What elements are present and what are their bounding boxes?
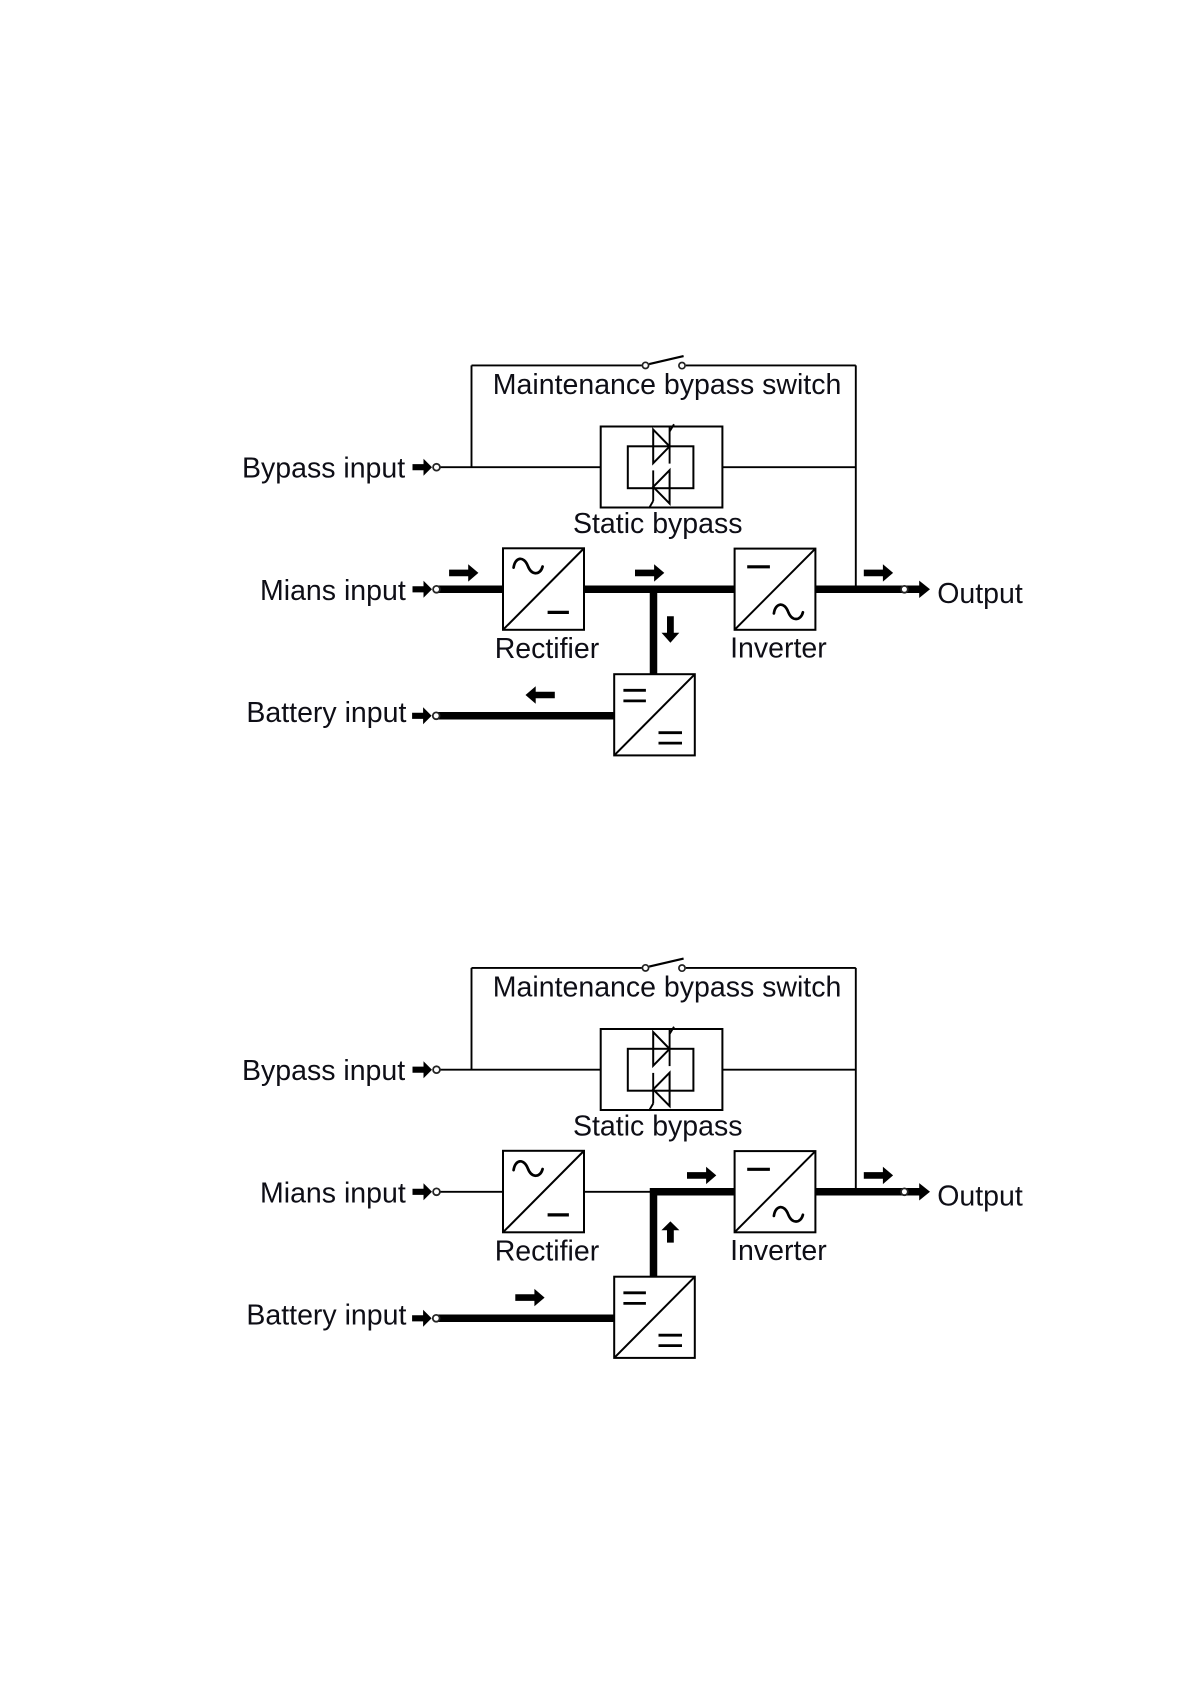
SCR top cathode bar, diagram 2 (669, 1030, 671, 1067)
wire: battery converter up to inverter (energised), diagram 2 (654, 1192, 735, 1278)
wire: rectifier to inverter DC bus (energised), diagram 1 (584, 586, 735, 594)
rectifier U2b: box with diagonal (503, 1151, 584, 1233)
wire: inverter to output (energised), diagram 1 (815, 586, 919, 594)
static bypass U2a: outer box (601, 1029, 723, 1110)
SCR top cathode bar, diagram 1 (669, 427, 671, 464)
inverter U1c: AC sine symbol (774, 605, 803, 619)
svg-text:Bypass input: Bypass input (242, 453, 405, 485)
inverter U2c: AC sine symbol (774, 1207, 803, 1221)
rectifier U2b: AC sine symbol (514, 1161, 543, 1175)
switch S2 blade (open) (649, 959, 683, 967)
svg-text:Maintenance bypass switch: Maintenance bypass switch (493, 971, 842, 1003)
arrow: flow DC bus toward inverter, diagram 1 (635, 564, 664, 581)
inverter U2c: DC dash symbol (747, 1168, 770, 1171)
arrow: mains input feed, diagram 2 (413, 1183, 433, 1200)
wire: maintenance loop right vertical down to output line, diagram 2 (855, 968, 857, 1192)
rectifier U1b: DC dash symbol (548, 611, 569, 614)
node: battery input terminal, diagram 2 (433, 1315, 440, 1322)
battery converter U2d: DC dashes upper-left (623, 1291, 646, 1294)
arrow: flow toward output, diagram 2 (864, 1167, 893, 1184)
rectifier U1b: AC sine symbol (514, 559, 543, 573)
SCR bottom gate lead, diagram 1 (649, 501, 653, 508)
rectifier U2b: DC dash symbol (548, 1213, 569, 1216)
svg-text:Battery input: Battery input (246, 697, 406, 729)
wire: maintenance loop right vertical down to output line, diagram 1 (855, 365, 857, 589)
wire: maintenance loop top line right segment, diagram 1 (686, 364, 856, 366)
svg-text:Inverter: Inverter (730, 1235, 827, 1267)
SCR top gate lead, diagram 1 (670, 424, 674, 431)
wire: DC bus down to battery charger, diagram 1 (650, 589, 658, 675)
battery converter U2d: DC dashes lower-right (659, 1334, 683, 1337)
wire: maintenance loop top line right segment, diagram 2 (686, 967, 856, 969)
arrow: flow up from battery converter, diagram 2 (661, 1221, 679, 1242)
arrow: flow DC bus toward inverter, diagram 2 (687, 1167, 716, 1184)
arrow: output feed head, diagram 1 (919, 581, 930, 598)
node: bypass input terminal, diagram 1 (433, 464, 440, 471)
svg-text:Rectifier: Rectifier (495, 1236, 600, 1268)
node: mains input terminal, diagram 1 (433, 586, 440, 593)
SCR bottom gate lead, diagram 2 (649, 1104, 653, 1111)
wire: bypass input to static bypass, diagram 2 (437, 1069, 628, 1071)
static bypass U2a: inner box (628, 1049, 694, 1091)
node: mains input terminal, diagram 2 (433, 1188, 440, 1195)
arrow: flow toward battery (charging), diagram 1 (526, 686, 555, 703)
wire: mains input to rectifier (de-energised), diagram 2 (437, 1191, 504, 1193)
svg-text:Output: Output (937, 578, 1023, 610)
battery converter U1d: box with diagonal (614, 674, 695, 755)
arrow: flow battery into converter, diagram 2 (515, 1289, 544, 1306)
switch S2 maintenance bypass switch: left contact circle (642, 965, 648, 971)
svg-text:Battery input: Battery input (246, 1299, 406, 1331)
wire: bypass input to static bypass, diagram 1 (437, 466, 628, 468)
SCR top gate lead, diagram 2 (670, 1027, 674, 1034)
svg-text:Inverter: Inverter (730, 633, 827, 665)
SCR bottom cathode bar, diagram 1 (652, 470, 654, 501)
node: output terminal, diagram 1 (901, 586, 908, 593)
static bypass U1a: outer box (601, 427, 723, 508)
SCR bottom (points left), diagram 2 (653, 1073, 669, 1106)
svg-text:Output: Output (937, 1181, 1023, 1213)
node: bypass input terminal, diagram 2 (433, 1066, 440, 1073)
arrow: flow mains into rectifier, diagram 1 (449, 564, 478, 581)
node: battery input terminal, diagram 1 (433, 712, 440, 719)
svg-text:Static bypass: Static bypass (573, 508, 743, 540)
wire: battery input to converter (energised), diagram 2 (437, 1315, 615, 1323)
wire: mains input to rectifier (energised), diagram 1 (437, 586, 504, 594)
arrow: bypass input feed, diagram 1 (413, 459, 433, 476)
wire: maintenance loop left vertical, diagram 2 (471, 968, 473, 1070)
svg-text:Static bypass: Static bypass (573, 1111, 743, 1143)
arrow: bypass input feed, diagram 2 (413, 1061, 433, 1078)
inverter U1c: box with diagonal (735, 549, 816, 630)
SCR bottom (points left), diagram 1 (653, 470, 669, 503)
wire: maintenance loop top line left segment, diagram 1 (472, 364, 642, 366)
switch S2 right contact circle (679, 965, 685, 971)
wire: battery input to charger (energised), diagram 1 (437, 712, 615, 720)
svg-text:Maintenance bypass switch: Maintenance bypass switch (493, 369, 842, 401)
static bypass U1a: inner box (628, 446, 694, 488)
wire: static bypass to loop right vertical, diagram 1 (693, 466, 855, 468)
SCR bottom cathode bar, diagram 2 (652, 1073, 654, 1104)
arrow: battery input feed, diagram 2 (412, 1310, 432, 1327)
inverter U2c: box with diagonal (735, 1151, 816, 1232)
svg-text:Mians input: Mians input (260, 575, 406, 607)
inverter U1c: DC dash symbol (747, 565, 770, 568)
arrow: mains input feed, diagram 1 (413, 581, 433, 598)
rectifier U1b: box with diagonal (503, 548, 584, 630)
node: output terminal, diagram 2 (901, 1188, 908, 1195)
arrow: flow down into charger, diagram 1 (662, 616, 680, 643)
svg-text:Mians input: Mians input (260, 1178, 406, 1210)
wire: inverter to output (energised), diagram 2 (815, 1188, 919, 1196)
svg-text:Bypass input: Bypass input (242, 1055, 405, 1087)
SCR top (points right), diagram 1 (653, 430, 669, 464)
switch S1 right contact circle (679, 363, 685, 369)
battery converter U1d: DC dashes lower-right (659, 731, 683, 734)
wire: rectifier to junction (de-energised), diagram 2 (584, 1191, 654, 1193)
wire: static bypass to loop right vertical, diagram 2 (693, 1069, 855, 1071)
switch S1 blade (open) (649, 356, 683, 364)
wire: maintenance loop left vertical, diagram 1 (471, 365, 473, 467)
SCR top (points right), diagram 2 (653, 1032, 669, 1066)
battery converter U2d: box with diagonal (614, 1277, 695, 1358)
switch S1 maintenance bypass switch: left contact circle (642, 362, 648, 368)
svg-text:Rectifier: Rectifier (495, 633, 600, 665)
battery converter U1d: DC dashes upper-left (623, 689, 646, 692)
arrow: output feed head, diagram 2 (919, 1183, 930, 1200)
arrow: flow toward output, diagram 1 (864, 564, 893, 581)
arrow: battery input feed, diagram 1 (412, 707, 432, 724)
wire: maintenance loop top line left segment, diagram 2 (472, 967, 642, 969)
